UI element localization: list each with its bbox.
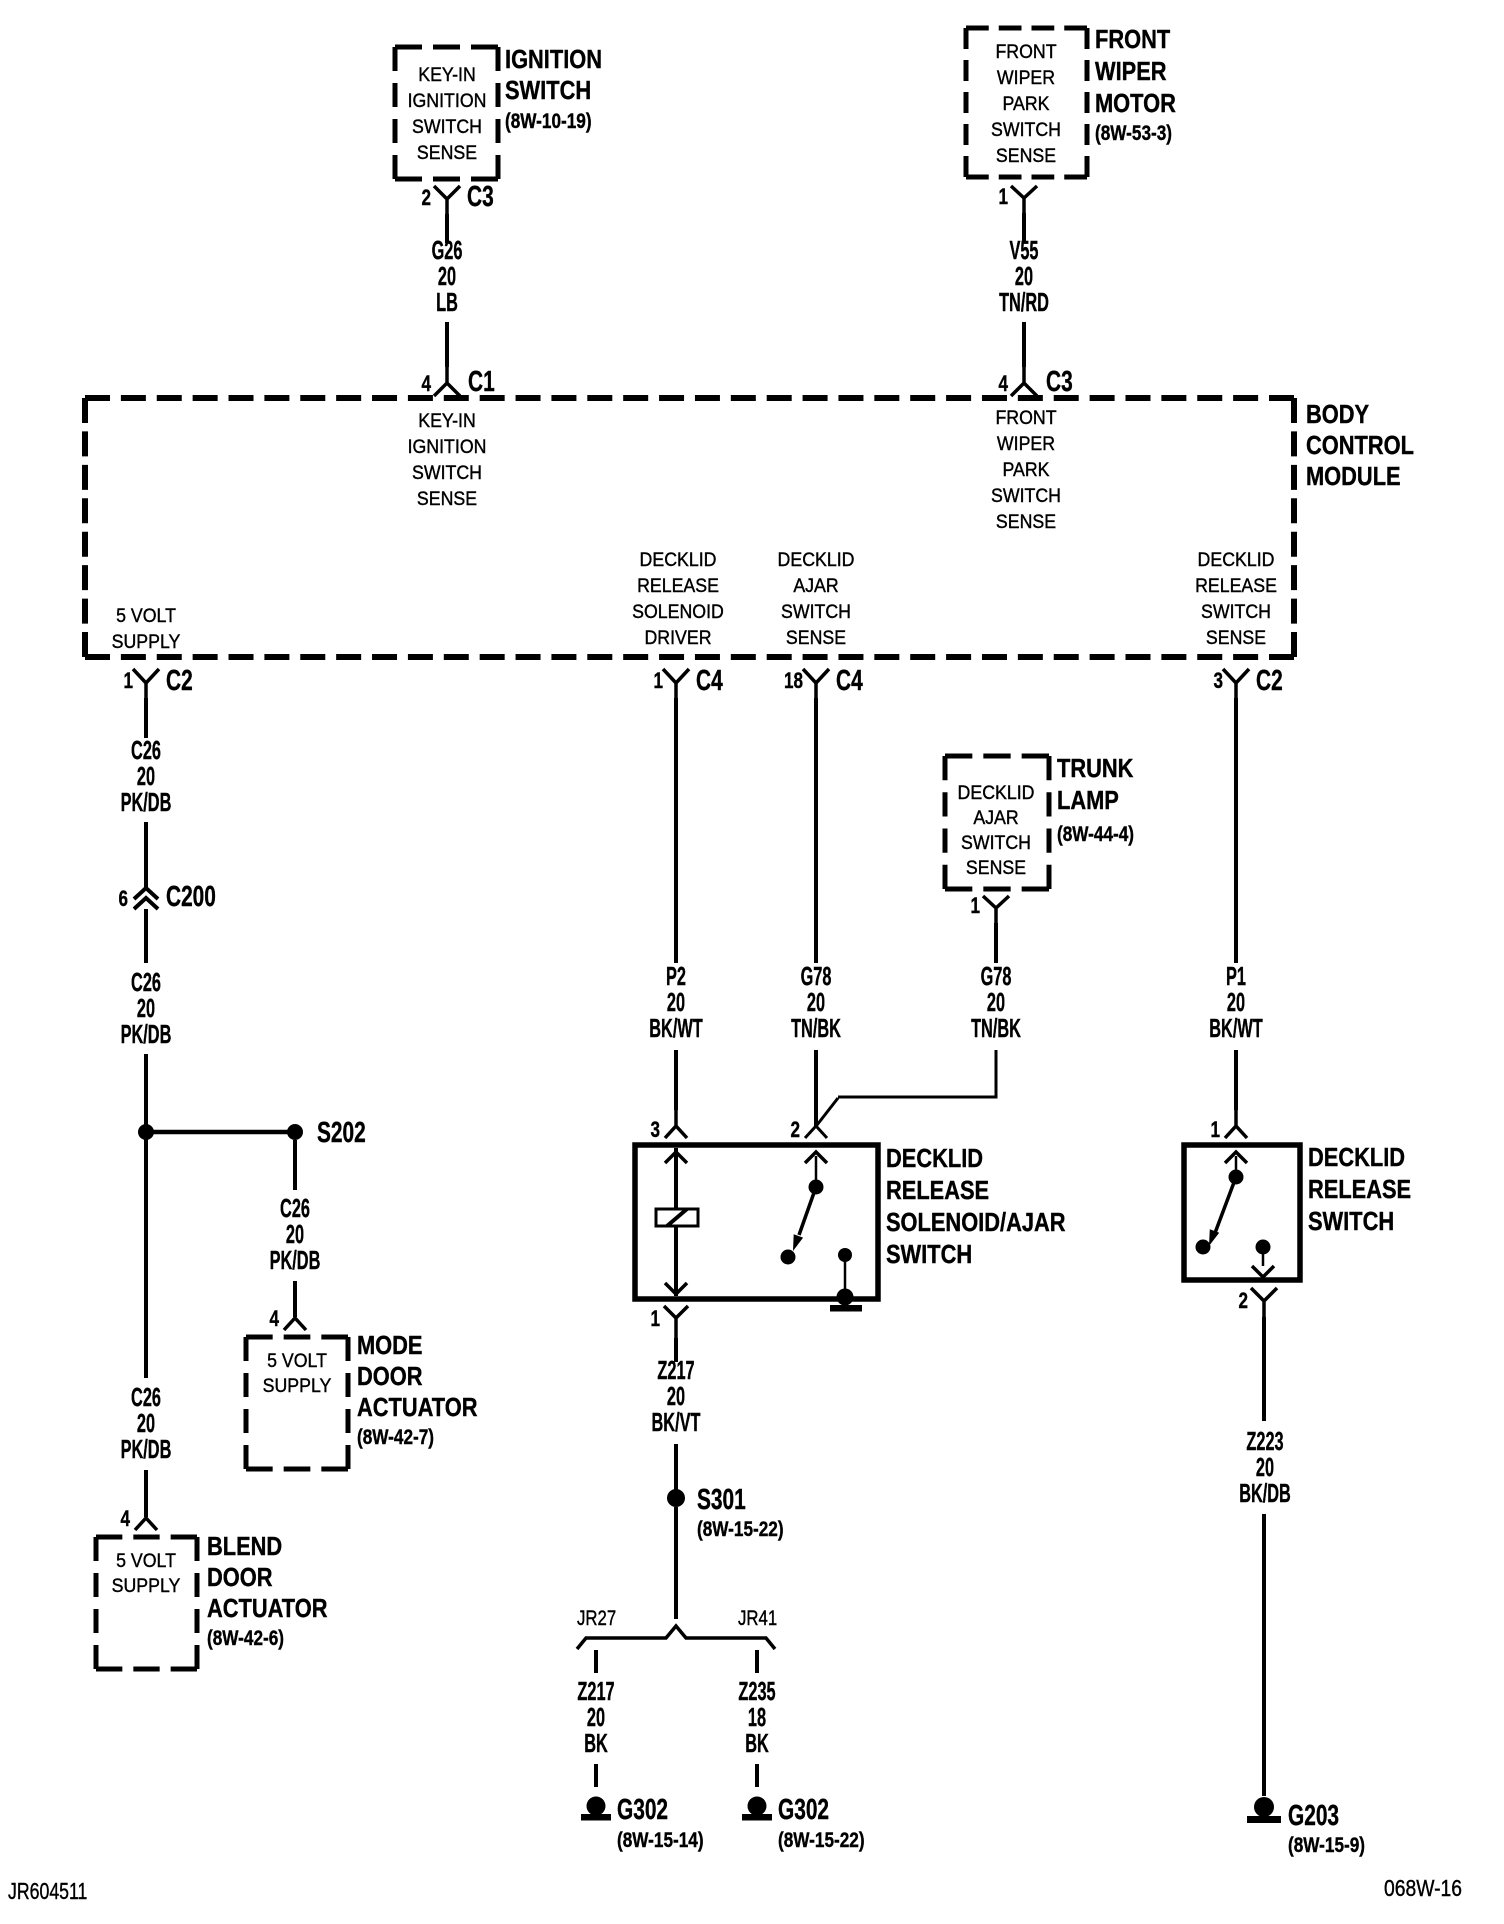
svg-text:Z22320BK/DB: Z22320BK/DB [1239, 1427, 1291, 1508]
connector pin 4 (blend door actuator) [120, 1507, 157, 1532]
component box: DECKLID RELEASE SWITCH [1184, 1145, 1300, 1280]
junction node [138, 1124, 154, 1140]
svg-text:G203: G203 [1288, 1800, 1339, 1832]
label BODY CONTROL MODULE [1306, 400, 1414, 491]
svg-text:C2620PK/DB: C2620PK/DB [121, 736, 172, 817]
svg-text:2: 2 [790, 1118, 800, 1143]
component box: DECKLID AJAR SWITCH SENSE (trunk lamp) [945, 756, 1049, 889]
release switch arm with arrow [1196, 1177, 1237, 1255]
svg-text:C2620PK/DB: C2620PK/DB [121, 968, 172, 1049]
svg-text:KEY-INIGNITIONSWITCHSENSE: KEY-INIGNITIONSWITCHSENSE [408, 63, 487, 163]
svg-text:BLENDDOORACTUATOR: BLENDDOORACTUATOR [207, 1532, 327, 1623]
wire C26 20 PK/DB (C200 to splice) [121, 909, 172, 1132]
connector C2 pin 1 (BCM bottom left) [123, 665, 192, 698]
component box: KEY-IN IGNITION SWITCH SENSE (ignition switch) [395, 47, 498, 179]
label DECKLID RELEASE SOLENOID/AJAR SWITCH [886, 1144, 1066, 1269]
svg-text:1: 1 [970, 894, 980, 919]
svg-text:S202: S202 [317, 1117, 366, 1149]
connector C4 pin 18 (BCM bottom) [784, 665, 863, 698]
svg-text:1: 1 [1210, 1118, 1220, 1143]
wire G78 20 TN/BK (trunk lamp to ajar switch) [817, 923, 1021, 1125]
svg-text:C2: C2 [1256, 665, 1283, 697]
label BLEND DOOR ACTUATOR (8W-42-6) [207, 1532, 327, 1650]
svg-text:IGNITIONSWITCH: IGNITIONSWITCH [505, 45, 602, 105]
svg-text:V5520TN/RD: V5520TN/RD [999, 236, 1049, 317]
relay coil branch (pin 3 to pin 1) [665, 1148, 687, 1209]
svg-text:FRONTWIPERMOTOR: FRONTWIPERMOTOR [1095, 25, 1176, 118]
ajar switch arm with arrow [781, 1187, 817, 1265]
svg-text:5 VOLTSUPPLY: 5 VOLTSUPPLY [263, 1349, 332, 1396]
svg-text:1: 1 [653, 669, 663, 694]
svg-text:(8W-15-14): (8W-15-14) [617, 1828, 704, 1852]
release switch output contact [1252, 1240, 1274, 1278]
svg-text:(8W-10-19): (8W-10-19) [505, 109, 592, 133]
ground G302 (8W-15-14) [581, 1794, 704, 1853]
svg-text:DECKLIDRELEASESWITCH: DECKLIDRELEASESWITCH [1308, 1143, 1411, 1236]
svg-text:C1: C1 [468, 366, 495, 398]
component box: 5 VOLT SUPPLY (blend door actuator) [96, 1537, 197, 1669]
svg-text:C3: C3 [467, 181, 494, 213]
connector pin 3 (decklid release solenoid) [650, 1110, 687, 1143]
svg-text:(8W-44-4): (8W-44-4) [1057, 822, 1134, 846]
svg-text:KEY-INIGNITIONSWITCHSENSE: KEY-INIGNITIONSWITCHSENSE [408, 409, 487, 509]
svg-text:(8W-15-22): (8W-15-22) [778, 1828, 865, 1852]
svg-text:1: 1 [123, 669, 133, 694]
connector C3 pin 4 (BCM) [998, 366, 1072, 398]
label IGNITION SWITCH (8W-10-19) [505, 45, 602, 133]
svg-text:FRONTWIPERPARKSWITCHSENSE: FRONTWIPERPARKSWITCHSENSE [991, 40, 1061, 166]
wire splitter JR27 / JR41 [577, 1607, 777, 1649]
svg-text:C4: C4 [836, 665, 863, 697]
svg-text:S301: S301 [697, 1484, 746, 1516]
svg-text:DECKLIDAJARSWITCHSENSE: DECKLIDAJARSWITCHSENSE [958, 781, 1035, 878]
svg-text:4: 4 [120, 1507, 130, 1532]
ground G203 (8W-15-9) [1247, 1797, 1365, 1858]
ground (inside solenoid/ajar switch) [830, 1289, 862, 1312]
svg-text:3: 3 [650, 1118, 660, 1143]
svg-text:1: 1 [998, 185, 1008, 210]
svg-text:FRONTWIPERPARKSWITCHSENSE: FRONTWIPERPARKSWITCHSENSE [991, 406, 1061, 532]
svg-text:(8W-53-3): (8W-53-3) [1095, 121, 1172, 145]
wire P1 20 BK/WT (BCM C2-3 to release switch) [1209, 698, 1262, 1110]
wire (junction to S202) [146, 1130, 295, 1135]
ground G302 (8W-15-22) [742, 1794, 865, 1853]
svg-text:C2: C2 [166, 665, 193, 697]
connector C3 pin 2 (ignition switch) [421, 181, 493, 214]
svg-text:JR604511: JR604511 [8, 1879, 87, 1905]
svg-text:2: 2 [421, 186, 431, 211]
svg-text:Z23518BK: Z23518BK [738, 1677, 775, 1758]
svg-text:G7820TN/BK: G7820TN/BK [971, 962, 1021, 1043]
svg-text:C2620PK/DB: C2620PK/DB [121, 1383, 172, 1464]
component box: DECKLID RELEASE SOLENOID/AJAR SWITCH [635, 1145, 878, 1299]
svg-text:4: 4 [998, 372, 1008, 397]
label DECKLID RELEASE SWITCH [1308, 1143, 1411, 1236]
wire Z217 20 BK/VT (solenoid to S301) [652, 1338, 701, 1490]
wire V55 20 TN/RD [999, 213, 1049, 367]
svg-text:(8W-15-22): (8W-15-22) [697, 1517, 784, 1541]
connector pin 2 (release switch output) [1238, 1288, 1277, 1317]
svg-text:DECKLIDRELEASESOLENOID/AJARSWI: DECKLIDRELEASESOLENOID/AJARSWITCH [886, 1144, 1066, 1269]
svg-text:MODEDOORACTUATOR: MODEDOORACTUATOR [357, 1331, 477, 1422]
connector C200 pin 6 [118, 881, 215, 913]
label MODE DOOR ACTUATOR (8W-42-7) [357, 1331, 477, 1449]
svg-text:6: 6 [118, 887, 128, 912]
svg-text:C3: C3 [1046, 366, 1073, 398]
relay coil L1 [656, 1209, 698, 1226]
component box: 5 VOLT SUPPLY (mode door actuator) [246, 1337, 348, 1469]
svg-text:BODYCONTROLMODULE: BODYCONTROLMODULE [1306, 400, 1414, 491]
svg-text:G302: G302 [617, 1794, 668, 1826]
svg-text:C200: C200 [166, 881, 216, 913]
connector pin 1 (decklid release switch) [1210, 1110, 1247, 1143]
svg-text:Z21720BK: Z21720BK [577, 1677, 614, 1758]
svg-text:(8W-42-7): (8W-42-7) [357, 1425, 434, 1449]
svg-text:G7820TN/BK: G7820TN/BK [791, 962, 841, 1043]
connector C4 pin 1 (BCM bottom) [653, 665, 722, 698]
svg-text:4: 4 [421, 372, 431, 397]
connector pin 1 (trunk lamp) [970, 894, 1009, 923]
body control module box [85, 398, 1294, 657]
svg-text:C2620PK/DB: C2620PK/DB [270, 1194, 321, 1275]
svg-text:DECKLIDRELEASESWITCHSENSE: DECKLIDRELEASESWITCHSENSE [1195, 548, 1277, 648]
connector C2 pin 3 (BCM bottom right) [1213, 665, 1282, 698]
splice S301 (8W-15-22) [667, 1484, 784, 1542]
svg-text:P120BK/WT: P120BK/WT [1209, 962, 1262, 1043]
svg-text:(8W-42-6): (8W-42-6) [207, 1626, 284, 1650]
svg-text:TRUNKLAMP: TRUNKLAMP [1057, 754, 1134, 815]
wire (S301 to splitter) [674, 1507, 678, 1619]
wire Z235 18 BK (to G302) [738, 1650, 775, 1787]
label TRUNK LAMP (8W-44-4) [1057, 754, 1134, 846]
wire C26 20 PK/DB (BCM C2 to C200) [121, 698, 172, 888]
svg-text:18: 18 [784, 669, 803, 694]
wire G26 20 LB [432, 214, 463, 367]
svg-text:Z21720BK/VT: Z21720BK/VT [652, 1356, 701, 1437]
svg-text:JR27: JR27 [577, 1607, 616, 1630]
svg-text:4: 4 [269, 1307, 279, 1332]
wire G78 20 TN/BK (BCM C4-18 to ajar switch) [791, 698, 841, 1126]
ajar switch contact (from pin 2) [805, 1152, 827, 1195]
connector pin 1 (solenoid output) [650, 1306, 688, 1340]
svg-text:5 VOLTSUPPLY: 5 VOLTSUPPLY [112, 1549, 181, 1596]
svg-text:1: 1 [650, 1307, 660, 1332]
svg-text:G302: G302 [778, 1794, 829, 1826]
label FRONT WIPER MOTOR (8W-53-3) [1095, 25, 1176, 145]
wire Z217 20 BK (to G302) [577, 1650, 614, 1787]
svg-text:(8W-15-9): (8W-15-9) [1288, 1833, 1365, 1857]
svg-text:G2620LB: G2620LB [432, 236, 463, 317]
svg-text:3: 3 [1213, 669, 1223, 694]
svg-text:DECKLIDAJARSWITCHSENSE: DECKLIDAJARSWITCHSENSE [778, 548, 855, 648]
wire P2 20 BK/WT (BCM C4-1 to solenoid) [649, 698, 702, 1110]
svg-text:5 VOLTSUPPLY: 5 VOLTSUPPLY [112, 604, 181, 652]
svg-text:JR41: JR41 [738, 1607, 777, 1630]
component box: FRONT WIPER PARK SWITCH SENSE (front wiper motor) [966, 28, 1087, 177]
svg-text:C4: C4 [696, 665, 723, 697]
ajar switch ground contact [838, 1248, 852, 1290]
release switch contact (from pin 1) [1225, 1152, 1247, 1185]
svg-text:DECKLIDRELEASESOLENOIDDRIVER: DECKLIDRELEASESOLENOIDDRIVER [632, 548, 724, 648]
connector pin 1 (front wiper motor) [998, 185, 1037, 213]
connector pin 2 (decklid ajar switch) [790, 1118, 827, 1143]
splice S202 [287, 1117, 366, 1149]
svg-text:P220BK/WT: P220BK/WT [649, 962, 702, 1043]
wire (coil to pin 1) [665, 1226, 687, 1296]
svg-text:068W-16: 068W-16 [1384, 1877, 1462, 1902]
wire C26 20 PK/DB (S202 to mode door actuator) [270, 1140, 321, 1317]
connector C1 pin 4 (BCM) [421, 366, 494, 398]
svg-text:2: 2 [1238, 1289, 1248, 1314]
wire C26 20 PK/DB (to blend door actuator) [121, 1132, 172, 1517]
wire Z223 20 BK/DB (to G203) [1239, 1317, 1291, 1796]
connector pin 4 (mode door actuator) [269, 1307, 306, 1332]
